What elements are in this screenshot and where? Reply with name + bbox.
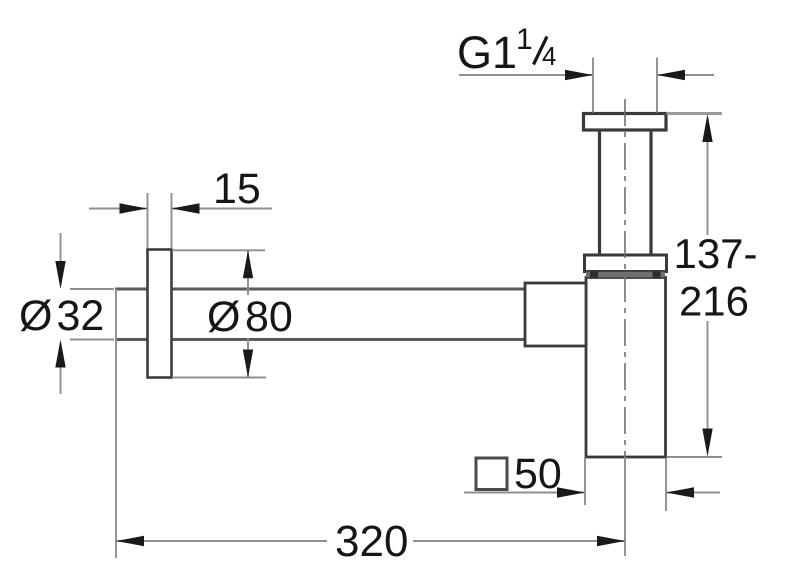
extension line bottom (body bottom level): [667, 456, 723, 458]
svg-text:320: 320: [335, 517, 408, 566]
dimension line Ø80 lower: [247, 338, 249, 378]
trap body: [586, 278, 666, 458]
seal band under ring: [586, 271, 665, 277]
extension lines Ø32: [70, 289, 114, 340]
svg-text:137-: 137-: [673, 230, 757, 277]
svg-text:1: 1: [516, 23, 533, 56]
dimension G1 1/4 label: [457, 23, 556, 78]
extension line left (pipe end): [115, 289, 117, 558]
arrow 15 right: [172, 203, 200, 213]
arrow 50 left: [557, 487, 585, 497]
horizontal inlet pipe bottom edge: [115, 338, 526, 341]
arrow 137-216 down: [702, 429, 712, 457]
wall flange (square escutcheon): [148, 250, 172, 378]
extension lines Ø80: [172, 250, 266, 377]
dimension line Ø32 lower: [60, 366, 62, 394]
dimension line 320: [116, 540, 625, 542]
arrow 320 left: [116, 536, 144, 546]
dimension Ø80 label: [207, 293, 293, 341]
arrow G1 right: [657, 70, 685, 80]
vertical outlet pipe: [600, 130, 652, 255]
dimension line Ø80 upper: [247, 250, 249, 295]
arrow Ø80 down: [243, 350, 253, 378]
square symbol of □50: [476, 458, 507, 490]
dimension Ø32 label: [19, 292, 104, 340]
vertical centerline (dash-dot): [624, 99, 626, 457]
svg-text:G1: G1: [457, 27, 517, 78]
dimension line 15: [89, 208, 272, 210]
extension lines G1: [593, 58, 657, 113]
arrow G1 left: [565, 70, 593, 80]
coupling ring at top of body: [585, 255, 667, 272]
svg-text:32: 32: [57, 292, 105, 340]
extension line top (flange level): [667, 112, 723, 115]
svg-text:15: 15: [213, 165, 261, 213]
horizontal inlet pipe top edge: [115, 288, 526, 291]
arrow 137-216 up: [702, 114, 712, 142]
dimension line Ø32 upper: [60, 233, 62, 263]
svg-text:80: 80: [245, 293, 293, 341]
dimension line 137-216: [707, 140, 709, 430]
arrow Ø32 up: [55, 340, 65, 368]
dimension line G1 1/4: [459, 74, 714, 76]
arrow 15 left: [120, 203, 148, 213]
svg-text:Ø: Ø: [207, 293, 240, 341]
svg-text:Ø: Ø: [19, 292, 52, 340]
arrow Ø32 down: [55, 261, 65, 289]
arrow 320 right: [597, 536, 625, 546]
extension lines 15: [148, 193, 172, 248]
svg-text:4: 4: [542, 41, 556, 71]
dimension 137-216 label: [673, 230, 757, 325]
svg-text:50: 50: [514, 450, 562, 498]
top flange: [584, 114, 667, 131]
dimension line 50: [464, 492, 720, 494]
union nut connector on inlet: [525, 283, 586, 346]
arrow Ø80 up: [243, 250, 253, 278]
svg-text:216: 216: [679, 278, 749, 325]
extension lines 50: [585, 458, 666, 511]
arrow 50 right: [666, 487, 694, 497]
centerline extension below body: [624, 457, 626, 556]
